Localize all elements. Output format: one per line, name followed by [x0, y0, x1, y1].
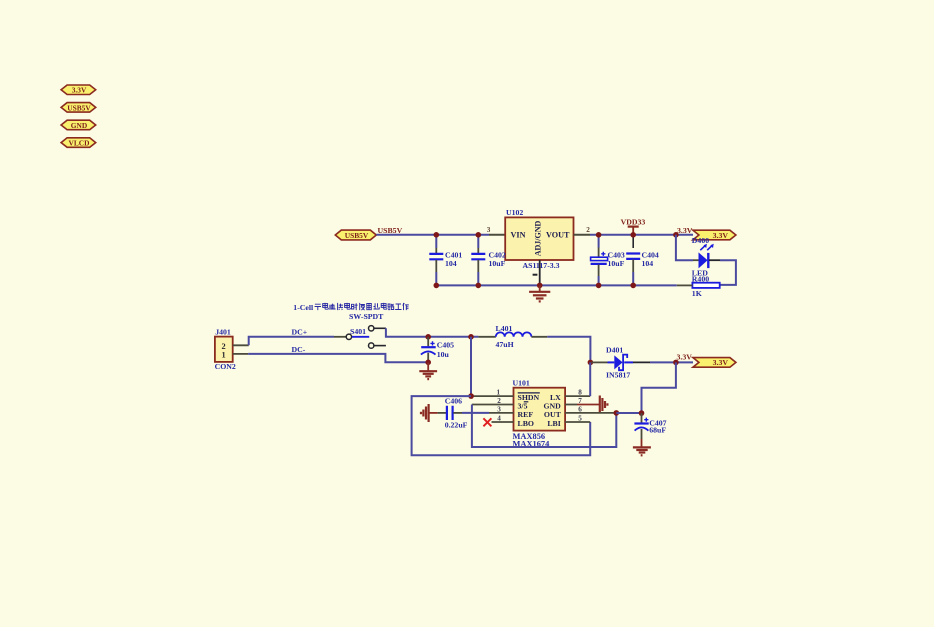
svg-text:U101: U101: [513, 379, 530, 388]
svg-text:0.22uF: 0.22uF: [445, 421, 468, 430]
svg-text:VIN: VIN: [511, 231, 526, 240]
svg-text:D401: D401: [606, 346, 623, 355]
pin 5 LBI stub: [565, 421, 590, 423]
wire LED branch vertical: [676, 235, 693, 260]
svg-text:ADJ/GND: ADJ/GND: [534, 221, 543, 257]
pin 1 SHDN wire: [471, 395, 513, 397]
pin 2 3/5 wire: [472, 404, 514, 406]
svg-text:10uF: 10uF: [608, 259, 625, 268]
svg-text:3.3V: 3.3V: [677, 226, 693, 235]
capacitor C404: [626, 251, 659, 272]
LED D400: [692, 236, 714, 278]
junction VOUT rail at LED branch: [673, 232, 679, 238]
pin 7 GND wire: [565, 404, 577, 406]
svg-text:S401: S401: [350, 327, 366, 336]
junction SHDN row: [468, 393, 474, 399]
ground (under C407): [633, 439, 651, 455]
port USB5V (input): [335, 230, 376, 240]
note chinese text 1-Cell battery note: [293, 303, 409, 312]
port USB5V (left stack): [61, 103, 96, 113]
svg-text:1: 1: [222, 351, 226, 360]
junction battery rail at C405: [425, 334, 431, 340]
port VLCD (left stack): [61, 138, 96, 148]
junction VOUT rail at C403: [596, 232, 602, 238]
svg-text:LBI: LBI: [547, 419, 560, 428]
pin 3 REF wire: [462, 412, 489, 414]
wire switch output to battery rail: [386, 328, 479, 337]
svg-text:VDD33: VDD33: [621, 217, 646, 226]
capacitor C402: [471, 248, 506, 272]
wire C404 vertical top: [632, 235, 634, 248]
svg-text:1K: 1K: [692, 289, 702, 298]
wire LED cathode to resistor: [709, 259, 720, 261]
capacitor C401: [429, 248, 462, 272]
wire DC-: [248, 354, 428, 362]
wire C403 vertical top: [598, 235, 600, 248]
wire 3/5 loop to OUT: [472, 405, 616, 448]
svg-text:3.3V: 3.3V: [677, 352, 693, 361]
junction 3.3V at OUT riser: [673, 360, 679, 366]
svg-text:OUT: OUT: [544, 410, 562, 419]
svg-text:J401: J401: [215, 328, 231, 337]
junction gnd rail at C402: [476, 283, 482, 289]
svg-text:VOUT: VOUT: [546, 231, 570, 240]
junction OUT row at 3/5 loop: [614, 410, 620, 416]
capacitor C403 polarized: [591, 248, 625, 277]
wire VOUT rail to 3.3V port: [590, 234, 693, 236]
ground (sideways right, pin 7): [600, 396, 608, 414]
connector J401 CON2: [215, 328, 236, 371]
svg-text:C405: C405: [437, 341, 454, 350]
wire DC+: [249, 337, 334, 346]
wire LX riser: [589, 362, 591, 396]
svg-text:C406: C406: [445, 396, 462, 405]
svg-text:SW-SPDT: SW-SPDT: [349, 312, 384, 321]
ground (under C405): [419, 362, 437, 379]
junction LX node at D401: [588, 360, 594, 366]
pin 1 of U102 (bottom ADJ/GND): [539, 260, 541, 285]
capacitor C407 polarized: [634, 413, 666, 439]
svg-text:REF: REF: [518, 410, 534, 419]
wire C402 vertical bottom: [477, 272, 479, 285]
capacitor C406: [438, 396, 468, 429]
svg-text:68uF: 68uF: [649, 426, 666, 435]
svg-text:VLCD: VLCD: [69, 138, 90, 147]
junction OUT at C407: [639, 410, 645, 416]
svg-text:2: 2: [222, 342, 226, 351]
ground (sideways left, C406): [421, 404, 438, 422]
wire USB5V rail to VIN: [376, 234, 489, 236]
switch S401 SW-SPDT: [334, 326, 386, 349]
svg-text:DC-: DC-: [292, 345, 306, 354]
junction gnd rail at C401: [434, 283, 440, 289]
pin 4 LBO stub: [492, 421, 514, 423]
svg-text:1-Cell: 1-Cell: [293, 303, 314, 312]
svg-text:104: 104: [642, 259, 654, 268]
pin 6 OUT wire: [565, 412, 616, 414]
junction VOUT rail at C404/VDD33: [630, 232, 636, 238]
resistor R400: [692, 274, 720, 297]
power port VDD33: [621, 217, 646, 234]
no-ERC marker (red X) on LBO: [483, 418, 491, 426]
junction top rail at C402: [476, 232, 482, 238]
svg-text:IN5817: IN5817: [606, 370, 630, 379]
svg-text:USB5V: USB5V: [67, 103, 91, 112]
wire OUT riser from 3.3V: [642, 362, 676, 413]
port 3.3V (top right): [693, 230, 736, 240]
junction DC- at C405 bottom: [425, 360, 431, 366]
wire ground rail (top circuit): [436, 284, 676, 286]
junction battery rail at SHDN riser: [468, 334, 474, 340]
svg-text:AS1117-3.3: AS1117-3.3: [523, 261, 560, 270]
svg-text:2: 2: [586, 226, 590, 234]
svg-text:10uF: 10uF: [489, 259, 506, 268]
pin 8 LX wire: [565, 395, 590, 397]
svg-text:3.3V: 3.3V: [72, 86, 87, 95]
op-amp U101 MAX856 body: [513, 379, 566, 449]
pin stub resistor left: [677, 284, 693, 286]
capacitor C405 polarized: [421, 337, 454, 363]
svg-text:GND: GND: [71, 121, 87, 130]
op-amp U102 AS1117-3.3 body: [505, 208, 573, 270]
pin number 1 (rotated): [533, 274, 538, 276]
svg-text:3.3V: 3.3V: [713, 358, 729, 367]
junction gnd rail at C403: [596, 283, 602, 289]
svg-text:CON2: CON2: [215, 362, 236, 371]
pin 1 stub of J401: [233, 353, 248, 355]
svg-text:USB5V: USB5V: [345, 231, 369, 240]
junction gnd rail at U102 pin1: [537, 283, 543, 289]
wire C404 vertical bottom: [632, 272, 634, 285]
junction top rail at C401: [434, 232, 440, 238]
diode D401 IN5817: [592, 346, 634, 380]
port GND (left stack): [61, 120, 96, 130]
wire C401 vertical top: [435, 235, 437, 248]
pin 3 stub of U102 VIN: [489, 234, 505, 236]
pin 2 stub of J401: [233, 344, 249, 346]
wire C401 vertical bottom: [435, 272, 437, 285]
port 3.3V (bottom right): [693, 358, 736, 368]
svg-text:104: 104: [445, 259, 457, 268]
ground (under U102): [529, 285, 550, 301]
wire L401 to LX corner: [547, 337, 590, 363]
svg-text:3: 3: [487, 226, 491, 234]
wire SHDN loop to LBI: [412, 396, 591, 455]
svg-text:D400: D400: [692, 236, 709, 245]
svg-text:3.3V: 3.3V: [713, 231, 729, 240]
wire D401 cathode to 3.3V: [633, 361, 650, 363]
junction gnd rail at C404: [630, 283, 636, 289]
wire C402 vertical top: [477, 235, 479, 248]
wire C403 vertical bottom: [598, 276, 600, 285]
svg-text:U102: U102: [506, 208, 523, 217]
wire SHDN riser: [470, 337, 472, 396]
svg-text:47uH: 47uH: [496, 340, 514, 349]
pin 2 stub of U102 VOUT: [574, 234, 591, 236]
svg-text:DC+: DC+: [292, 327, 308, 336]
svg-text:LBO: LBO: [518, 419, 534, 428]
inductor L401: [478, 324, 547, 349]
port 3.3V (left stack): [61, 85, 96, 95]
svg-text:USB5V: USB5V: [378, 226, 403, 235]
svg-text:10u: 10u: [437, 350, 450, 359]
wire OUT row to C407: [616, 412, 641, 414]
